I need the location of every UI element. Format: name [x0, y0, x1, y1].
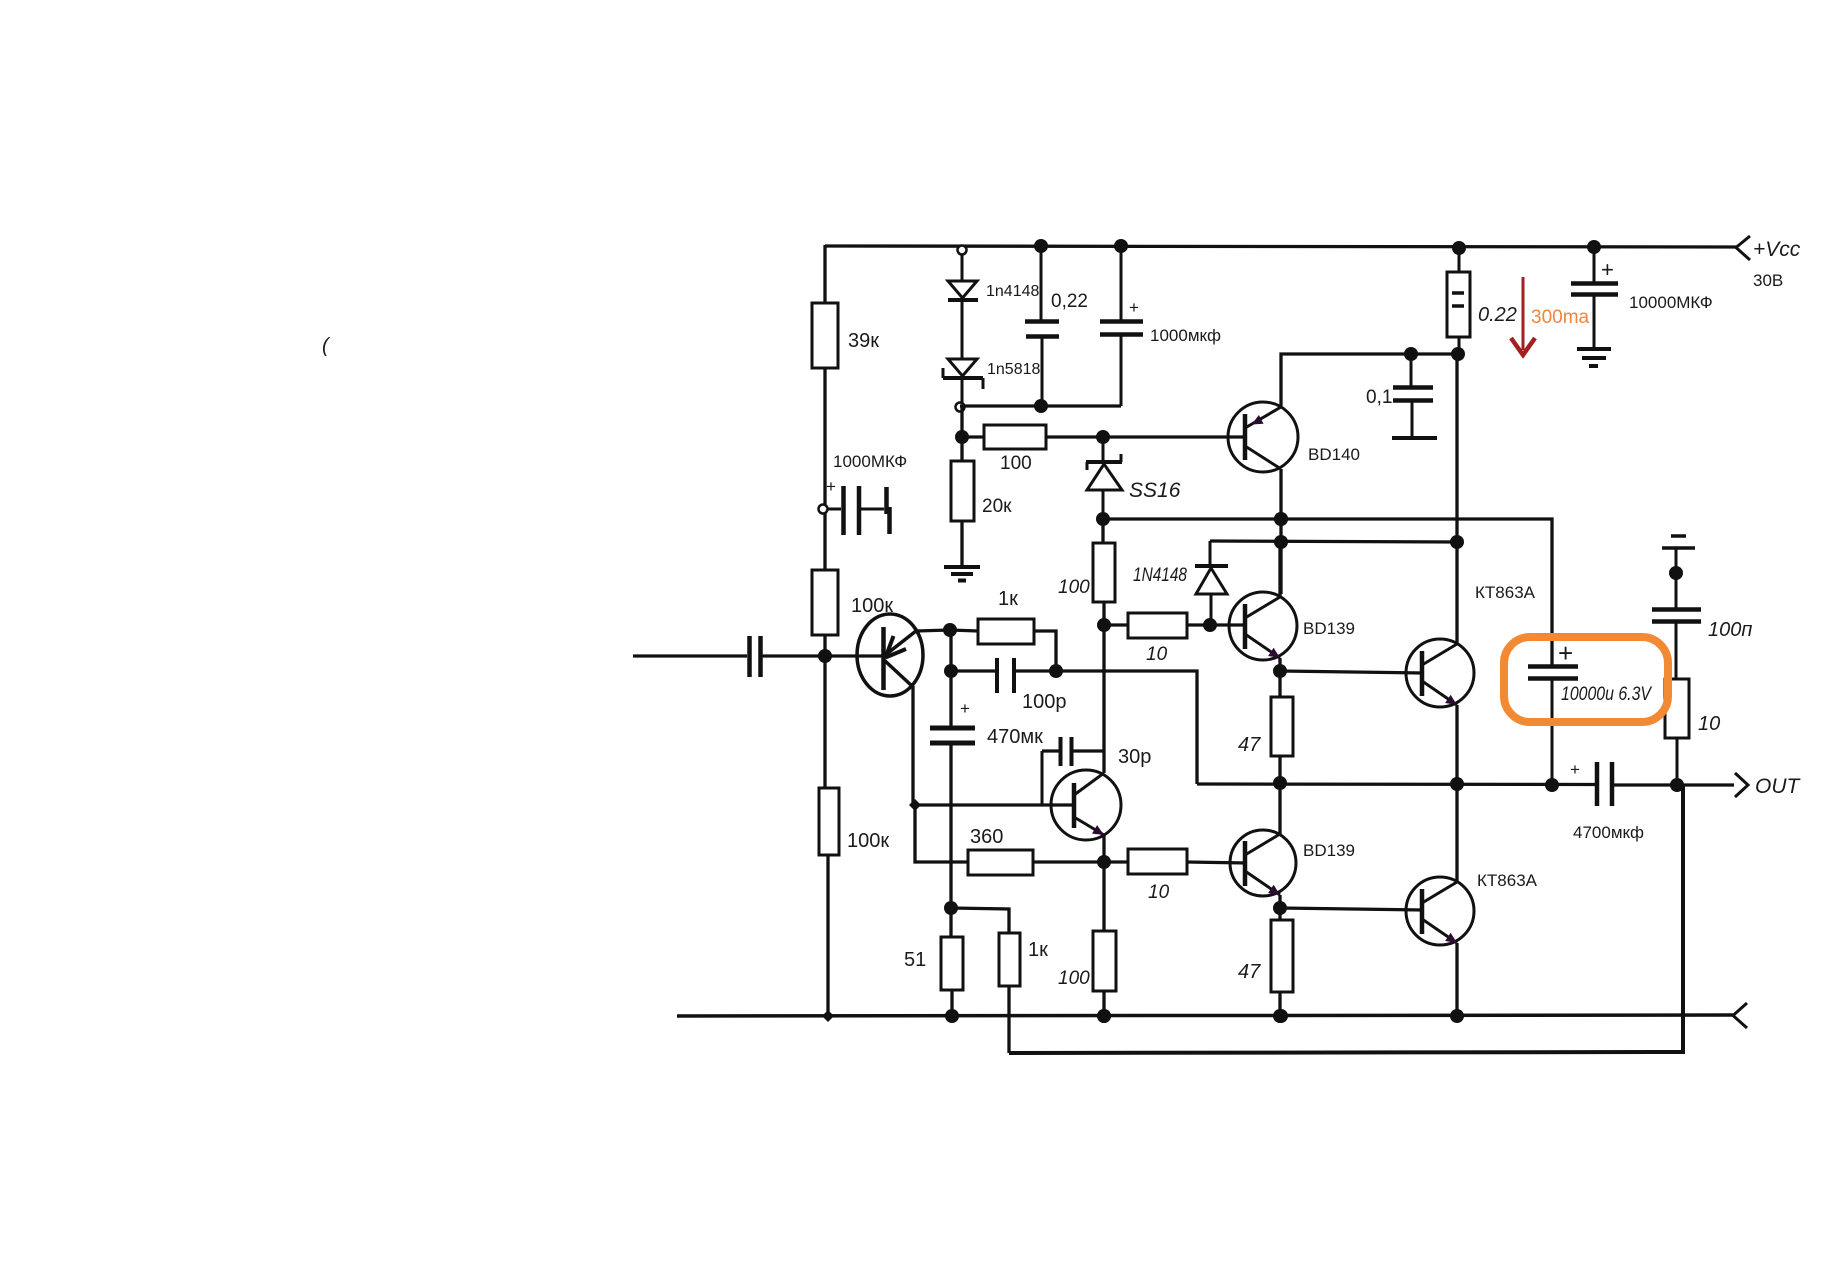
capacitor 100p	[951, 669, 997, 672]
capacitor 10000u 6.3V	[1528, 664, 1578, 669]
wire 1N4148 to BD139 base	[1210, 623, 1247, 626]
transistor Q2	[1051, 770, 1121, 840]
svg-text:10: 10	[1148, 882, 1170, 903]
terminal ground arrow	[1733, 1003, 1747, 1028]
wire 20k node row	[960, 406, 963, 462]
wire KT863A lower collector	[1455, 784, 1458, 882]
resistor 0.22	[1458, 248, 1461, 272]
wire to 1k lower	[951, 908, 1009, 933]
capacitor 0,1	[1410, 354, 1413, 386]
node 100n top	[1669, 566, 1683, 580]
node wireA-BD140	[1274, 512, 1288, 526]
node ground Q2 column	[1097, 1009, 1111, 1023]
svg-text:30В: 30В	[1753, 271, 1783, 290]
resistor 100k lower	[819, 788, 839, 855]
capacitor 10000MKF	[1593, 247, 1596, 282]
wire BD139 lower collector	[1278, 783, 1281, 834]
capacitor 100n	[1652, 607, 1701, 612]
svg-text:+: +	[1601, 257, 1614, 282]
highlight box orange	[1504, 637, 1668, 722]
resistor 51	[949, 908, 952, 937]
wire Q2 emitter down	[1102, 835, 1105, 863]
transistor BD140	[1228, 402, 1298, 472]
svg-text:1N4148: 1N4148	[1133, 565, 1187, 586]
diode 1n4148 top	[961, 250, 964, 281]
node 0.22 top	[1452, 241, 1466, 255]
resistor 100 bias	[962, 435, 984, 438]
wire Q1 emitter to 1k node	[916, 630, 950, 631]
svg-text:10000МКФ: 10000МКФ	[1629, 293, 1713, 312]
transistor BD139 lower	[1230, 830, 1296, 896]
wire 20k to ground	[960, 521, 963, 567]
resistor 47 upper	[1271, 697, 1293, 756]
svg-text:+: +	[960, 699, 970, 718]
wire +Vcc top rail	[825, 246, 1737, 247]
wire 470mk down	[949, 745, 952, 910]
svg-text:10: 10	[1146, 644, 1168, 665]
svg-text:47: 47	[1238, 961, 1261, 983]
resistor 47 lower	[1271, 920, 1293, 992]
capacitor 1000MKF side	[819, 505, 828, 514]
wire Q1 collector down	[911, 686, 914, 805]
wire BD139 emitter to KT863A base	[1280, 671, 1423, 673]
resistor 20k	[951, 461, 974, 521]
svg-text:30р: 30р	[1118, 746, 1151, 768]
node Q2 base junction	[909, 799, 921, 811]
node input junction	[818, 649, 832, 663]
wire diode bottom row	[960, 404, 1121, 407]
wire 100 to node	[1102, 602, 1105, 627]
capacitor 30p	[1042, 749, 1060, 752]
svg-text:100к: 100к	[847, 830, 889, 852]
current arrow 300ma	[1522, 277, 1525, 350]
wire A upper rail	[1103, 519, 1552, 666]
node SS16 bottom	[1096, 512, 1110, 526]
wire 100k to input node	[823, 635, 826, 790]
terminal +Vcc	[1736, 236, 1750, 260]
wire BD140 emitter up	[1281, 354, 1458, 407]
node 51/1k	[944, 901, 958, 915]
svg-text:1n5818: 1n5818	[987, 361, 1040, 378]
wire Q2 collector up	[1102, 627, 1105, 773]
svg-text:1000мкф: 1000мкф	[1150, 326, 1221, 345]
node on ground rail	[822, 1010, 834, 1022]
svg-text:BD139: BD139	[1303, 841, 1355, 860]
node wireA BD140 collector	[1274, 512, 1288, 526]
wire KT863A lower emitter	[1455, 943, 1458, 1016]
wire input line	[633, 654, 747, 657]
svg-text:1к: 1к	[1028, 939, 1048, 961]
diode 1N4148 driver	[1209, 541, 1212, 566]
svg-text:20к: 20к	[982, 496, 1012, 517]
svg-text:0.22: 0.22	[1478, 304, 1517, 326]
resistor 100 lower	[1102, 862, 1105, 931]
svg-text:+Vcc: +Vcc	[1753, 238, 1801, 261]
svg-text:+: +	[1129, 298, 1139, 317]
wire KT863A emitter to out	[1455, 705, 1458, 786]
svg-text:+: +	[826, 477, 836, 496]
ground under 10000MKF	[1577, 347, 1611, 351]
svg-text:+: +	[1570, 760, 1580, 779]
diode 1n5818	[948, 359, 977, 376]
terminal OUT arrow	[1735, 773, 1748, 797]
capacitor 0,22	[1040, 246, 1043, 321]
resistor 100 vas upper	[1101, 519, 1104, 543]
svg-text:100: 100	[1000, 453, 1032, 474]
resistor 39k	[812, 303, 838, 368]
node out-KT863A	[1450, 777, 1464, 791]
svg-text:100п: 100п	[1708, 619, 1752, 641]
resistor 100k upper	[812, 570, 838, 635]
svg-text:51: 51	[904, 949, 926, 971]
wire input cap to Q1 base	[762, 654, 884, 657]
svg-text:47: 47	[1238, 734, 1261, 756]
node BD139 base	[1203, 618, 1217, 632]
wire OUT rail	[1197, 782, 1595, 786]
svg-text:BD139: BD139	[1303, 619, 1355, 638]
transistor KT863A lower	[1406, 877, 1474, 945]
node out-10000u	[1545, 778, 1559, 792]
node out-47	[1273, 776, 1287, 790]
svg-text:+: +	[1558, 638, 1573, 668]
svg-text:100: 100	[1058, 968, 1090, 989]
wire BD139 collector up	[1278, 544, 1281, 597]
resistor 10 zobel	[1665, 679, 1689, 738]
ground under 20k	[944, 565, 980, 569]
node 51 ground	[945, 1009, 959, 1023]
resistor 1k lower	[999, 933, 1020, 986]
svg-text:360: 360	[970, 826, 1003, 848]
svg-text:300ma: 300ma	[1531, 307, 1590, 328]
svg-text:КТ863А: КТ863А	[1475, 583, 1536, 602]
node Q2 emitter	[1097, 855, 1111, 869]
capacitor input coupling	[747, 636, 752, 677]
capacitor 1000mkf top	[1120, 246, 1123, 321]
transistor Q1 input	[857, 614, 923, 696]
svg-text:100р: 100р	[1022, 691, 1067, 713]
wire 10 to BD139 lower base	[1187, 862, 1247, 863]
wire BD140 collector down	[1279, 469, 1282, 594]
node 0,1 junction	[1404, 347, 1418, 361]
svg-text:1к: 1к	[998, 588, 1018, 610]
wire Q2 base	[915, 803, 1074, 806]
svg-text:КТ863А: КТ863А	[1477, 871, 1538, 890]
node open top	[958, 246, 967, 255]
resistor 1k feedback	[950, 630, 978, 631]
diode SS16	[1102, 437, 1105, 462]
wire 100k lower to ground rail	[826, 855, 829, 1016]
svg-text:0,22: 0,22	[1051, 291, 1088, 312]
svg-text:SS16: SS16	[1129, 479, 1181, 502]
wire to KT863A lower base	[1280, 908, 1423, 910]
transistor KT863A upper	[1406, 639, 1474, 707]
svg-text:1000МКФ: 1000МКФ	[833, 452, 907, 471]
wire ground rail	[677, 1015, 1733, 1016]
svg-text:0,1: 0,1	[1366, 387, 1392, 408]
resistor 360	[915, 805, 968, 862]
node wireB KT863A collector	[1450, 535, 1464, 549]
node 100 ground	[1097, 1009, 1111, 1023]
node Vcc-39k corner	[823, 245, 826, 305]
capacitor 470mk	[930, 726, 975, 731]
node 100p right	[1049, 664, 1063, 678]
svg-text:39к: 39к	[848, 330, 879, 352]
node 100p left	[944, 664, 958, 678]
svg-text:1n4148: 1n4148	[986, 283, 1039, 300]
svg-text:10: 10	[1698, 713, 1720, 735]
node open bottom	[956, 403, 965, 412]
node ground 47	[1274, 1009, 1288, 1023]
svg-text:10000u 6.3V: 10000u 6.3V	[1561, 684, 1653, 705]
transistor BD139 upper	[1229, 592, 1297, 660]
node Q1 emitter	[943, 623, 957, 637]
wire BD139 lower emitter	[1278, 895, 1281, 922]
svg-text:470мк: 470мк	[987, 726, 1043, 748]
wire emitter column	[949, 630, 952, 728]
wire KT863A collector up	[1455, 354, 1458, 644]
node emitter ground	[1450, 1009, 1464, 1023]
node BD139 lower emitter	[1273, 901, 1287, 915]
svg-text:OUT: OUT	[1755, 775, 1802, 798]
wire 39k to 100k	[823, 368, 826, 572]
node driver base row	[1097, 618, 1111, 632]
resistor 10 lower	[1104, 860, 1128, 863]
wire B driver rail	[1210, 541, 1457, 542]
wire 100 to BD140 base	[1046, 435, 1247, 438]
svg-text:100: 100	[1058, 577, 1090, 598]
node BD139 emitter	[1273, 664, 1287, 678]
svg-text:BD140: BD140	[1308, 445, 1360, 464]
node 0.22 bottom junction	[1451, 347, 1465, 361]
svg-text:4700мкф: 4700мкф	[1573, 823, 1644, 842]
wire 1k to feedback line	[1007, 986, 1010, 1053]
resistor 10 upper	[1104, 623, 1128, 626]
wire feedback 100p to out	[1056, 671, 1197, 784]
wire bootstrap feedback bottom	[1009, 786, 1683, 1053]
node wireB-BD140	[1274, 535, 1288, 549]
wire BD139 emitter down	[1278, 658, 1281, 699]
capacitor 4700mkf	[1595, 762, 1600, 806]
zobel 100n branch	[1671, 534, 1686, 538]
node out-10	[1670, 778, 1684, 792]
node 47 ground	[1273, 1009, 1287, 1023]
